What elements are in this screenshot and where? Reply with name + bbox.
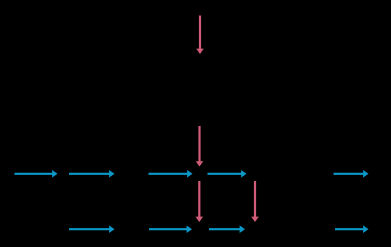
arrow row1 #5 far right [334, 170, 369, 178]
arrow vertical A to B [196, 126, 204, 167]
arrow row1 #2 [69, 170, 115, 178]
arrow row1 #4 [208, 170, 247, 178]
arrow row1 #3 [149, 170, 193, 178]
arrow vertical C down to row 2 [251, 181, 259, 222]
arrow row1 #1 [15, 170, 58, 178]
arrow row2 #1 [69, 225, 115, 233]
arrow vertical B down to row 2 [196, 181, 204, 222]
arrow row2 #3 [209, 225, 245, 233]
arrow row2 #4 far right [335, 225, 369, 233]
arrow row2 #2 [149, 225, 192, 233]
arrow top vertical (into node A) [196, 16, 204, 55]
